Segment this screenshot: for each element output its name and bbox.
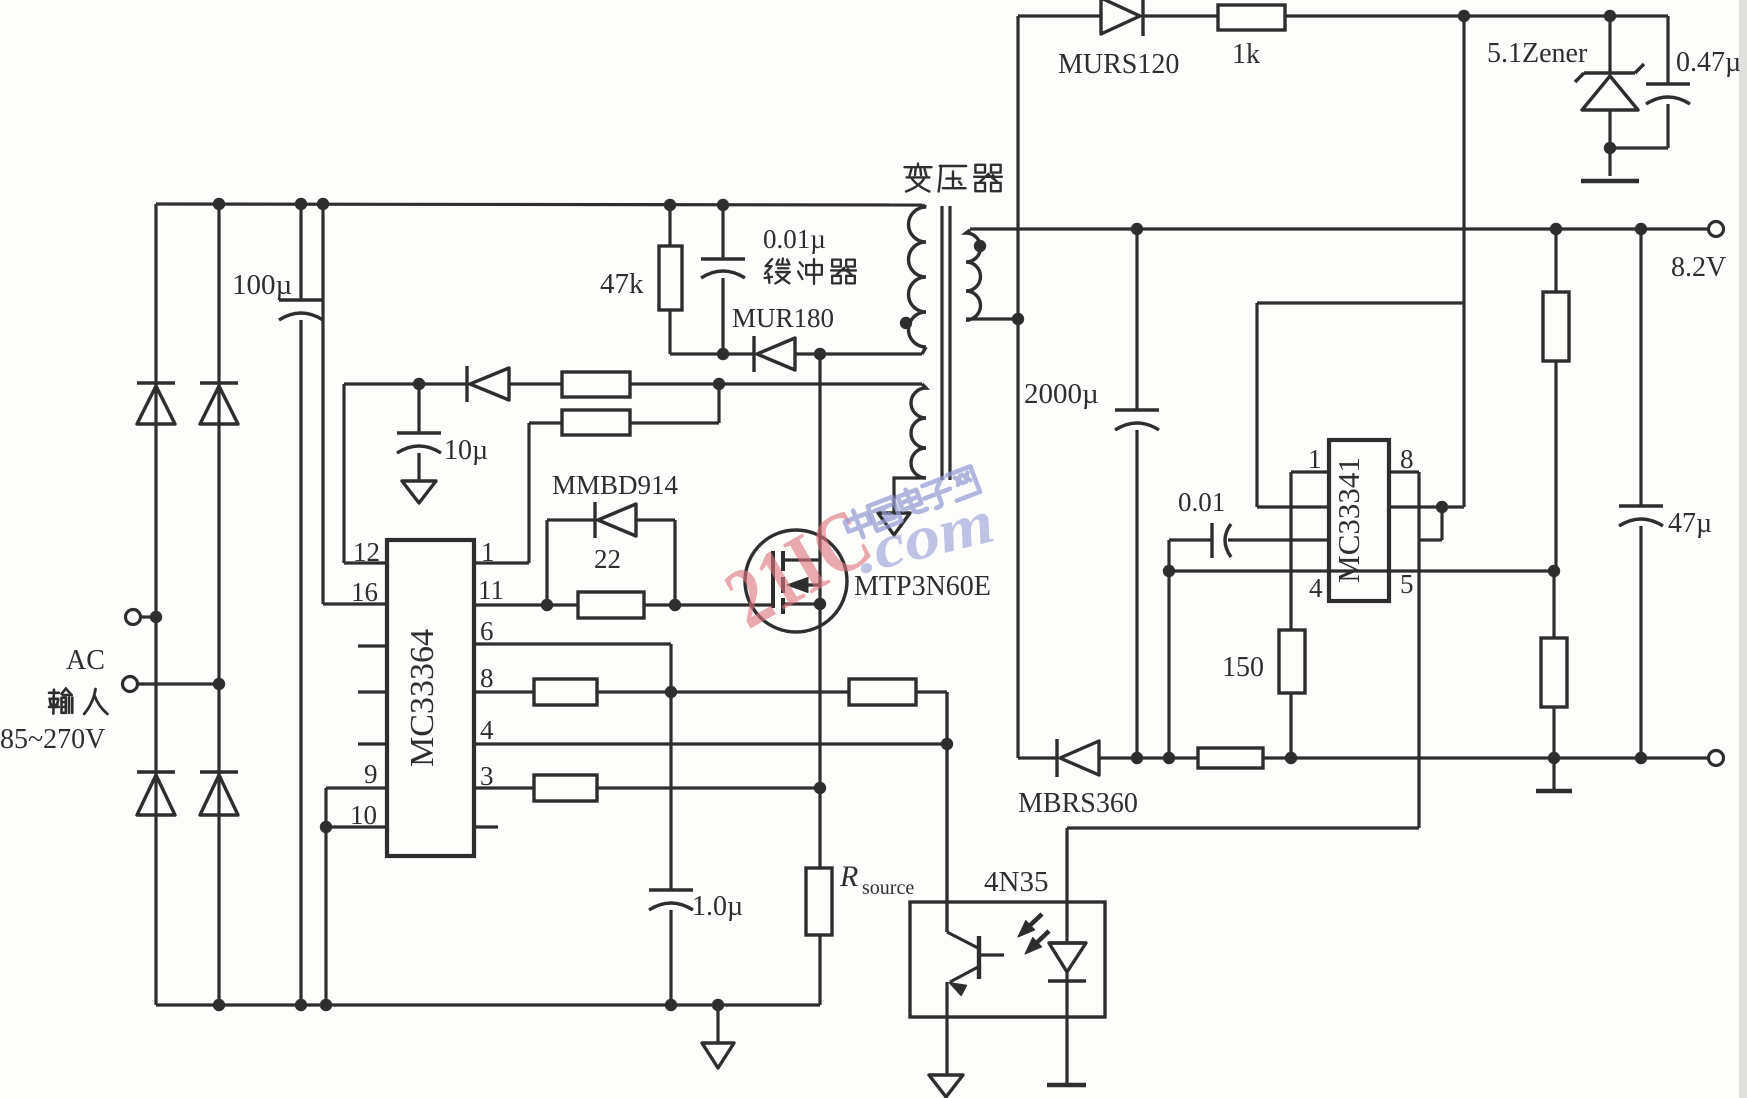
wire source column [818,604,821,868]
watermark [710,490,886,647]
wire secondary bottom lead [966,317,1018,320]
node junction 47µ/return [1635,752,1647,764]
node junction col2/top rail [213,198,225,210]
ground bar below divider [1552,758,1555,790]
node junction 100µ/bottom rail [295,999,307,1011]
svg-text:1: 1 [1308,444,1322,474]
wire pin8 row [597,690,849,693]
svg-text:47k: 47k [600,268,644,300]
pin 9 lead [326,786,387,789]
diode D5 (VCC rectifier) [465,366,468,402]
ground bar below 4N35 LED [1047,1083,1086,1087]
pin 1 stub U2 [1291,470,1329,473]
terminal AC input bottom [123,677,138,692]
diode bridge D4 (lower-right) [200,770,238,773]
resistor R pin3 [534,775,597,801]
ground below 10µ [402,481,436,503]
wire 100µ cap bottom lead [299,320,302,1005]
capacitor C 100µ [279,298,323,301]
resistor R divider-lower [1541,638,1567,707]
pin 16 lead [323,602,387,605]
diode MBRS360 [1055,739,1058,777]
resistor R row2 [562,410,630,435]
pin 8 stub U2 [1389,470,1419,473]
node junction AC-bottom on column [213,678,225,690]
stub nc pin left c [358,742,387,745]
opto transistor collector [945,692,948,932]
node junction 0.01/pin4 row [1163,565,1175,577]
wire pins 9/10 to ground rail [324,788,327,1005]
opto light arrow a [1021,914,1042,934]
pin 8 row U2 [1389,505,1464,508]
svg-text:1: 1 [481,537,495,567]
terminal AC input top [126,610,141,625]
stub nc pin right [474,825,498,828]
svg-text:8: 8 [480,663,494,693]
wire 47k top lead [668,205,671,246]
svg-text:AC: AC [66,645,105,676]
svg-text:9: 9 [364,759,378,789]
svg-text:150: 150 [1222,652,1264,683]
diode MURS120 [1101,0,1140,34]
svg-text:MMBD914: MMBD914 [552,470,679,500]
wire 100µ cap top lead [299,204,302,300]
pin 11 lead [474,603,547,606]
resistor 150 [1279,630,1305,693]
svg-text:R: R [839,860,858,893]
svg-text:2000µ: 2000µ [1024,378,1099,410]
wire row1 corner to pin 12 [342,384,345,563]
node junction zener/0.47µ [1604,142,1616,154]
opto transistor base bar [977,936,981,979]
opto transistor base stub [979,953,1004,956]
wire 10µ bottom lead [417,453,420,481]
wire 0.47µ top lead [1666,16,1669,84]
node junction 47k/top rail [664,199,676,211]
transformer secondary winding [966,230,981,320]
transformer auxiliary winding [911,384,926,478]
wire 8.2V output rail [970,227,1708,230]
wire output return rail [1018,756,1057,759]
label 变压器 [905,164,932,192]
node junction 0.01µ/top rail [717,199,729,211]
ground below aux winding [878,513,910,535]
node junction 150/output return [1285,752,1297,764]
wire pin11 row [547,603,578,606]
svg-text:22: 22 [594,544,621,574]
wire pin4-pin5 row [1169,569,1554,572]
pin 4 lead wire [474,742,947,745]
stub nc pin left b [358,690,387,693]
terminal 8.2V output [1709,222,1724,237]
node junction pin6/pin8 row [665,686,677,698]
wire snubber 0.01µ top lead [721,205,724,259]
node junction AC-top on column [150,611,162,623]
node junction row1/row2 tie [713,378,725,390]
wire 1.0µ bottom lead [669,910,672,1005]
ground below 4N35 transistor [929,1075,963,1097]
label 输入 [49,689,72,714]
wire snubber cap bottom lead [721,278,724,354]
svg-text:10µ: 10µ [444,435,488,466]
resistor 47k [659,246,682,310]
node junction pin5/divider [1548,565,1560,577]
node junction divider-bottom/return [1548,752,1560,764]
wire zener top lead [1608,16,1611,73]
wire pin3 row [597,786,820,789]
wire row2 corner to pin 1 [527,423,530,563]
node junction 22-right [669,599,681,611]
wire 4N35 anode feed [1067,826,1419,829]
transformer core [940,206,943,480]
transistor Q1 MTP3N60E [745,530,847,632]
wire snubber bottom row [670,352,754,355]
svg-text:0.01µ: 0.01µ [763,224,826,254]
svg-text:12: 12 [353,537,380,567]
wire row2 riser [717,384,720,423]
node junction secondary/long vertical [1012,313,1024,325]
wire aux winding to ground [894,478,926,513]
wire divider upper lead [1554,229,1557,292]
node junction 0.01-col/output return [1163,752,1175,764]
svg-text:MUR180: MUR180 [732,303,834,333]
svg-text:8: 8 [1400,444,1414,474]
diode zener 5.1V [1584,71,1635,74]
node junction ground stub [712,999,724,1011]
wire zener bottom lead [1608,110,1611,176]
ground main (primary side) [702,1043,734,1068]
svg-text:85~270V: 85~270V [0,724,105,755]
pin 8 lead [474,690,534,693]
wire 47k bottom lead [668,310,671,354]
node junction 47µ/8.2V rail [1635,223,1647,235]
wire pin8 jog [1440,507,1443,540]
wire 10µ top lead [417,384,420,433]
wire divider middle [1554,361,1557,571]
capacitor C 1.0µ [649,888,693,891]
wire bottom ground rail [156,1003,820,1006]
wire R_source bottom lead [818,935,821,1005]
svg-text:source: source [862,877,914,899]
resistor R pin8-a [534,679,597,705]
wire 47µ bottom lead [1639,526,1642,758]
svg-text:MBRS360: MBRS360 [1018,788,1138,819]
capacitor C 0.47µ [1646,82,1690,85]
pin 10 lead [326,825,387,828]
opto transistor emitter [950,967,978,982]
svg-text:4N35: 4N35 [984,866,1048,898]
transformer secondary phase dot [974,240,986,252]
wire feedback outer-left vertical [1255,303,1258,507]
diode MMBD914 [593,502,596,538]
terminal output return [1709,751,1724,766]
wire LED cathode lead [1065,972,1068,1084]
scan artifact right edge band [1739,0,1747,1098]
wire feedback outer top [1257,301,1464,304]
resistor 1k [1218,5,1285,30]
svg-text:8.2V: 8.2V [1671,252,1726,283]
capacitor C 47µ [1619,504,1663,507]
node junction 2000µ/rail [1131,223,1143,235]
resistor R row1 [562,372,630,397]
svg-text:1k: 1k [1232,39,1260,70]
node junction pins9-10/ground rail [320,999,332,1011]
optocoupler U3 4N35 box [910,902,1105,1017]
svg-text:5.1Zener: 5.1Zener [1487,38,1588,69]
wire VCC row2 [529,421,562,424]
svg-text:5: 5 [1400,569,1414,599]
svg-text:0.01: 0.01 [1178,487,1225,517]
wire drain to snubber row [818,354,821,560]
node junction pin8-row [1436,501,1448,513]
wire top feedback rail [1018,14,1101,17]
wire 0.01 left lead [1169,538,1212,541]
svg-text:1.0µ: 1.0µ [692,891,743,922]
node junction 2000µ/output return [1131,752,1143,764]
pin 6 lead [474,642,671,645]
svg-text:11: 11 [478,575,504,605]
label 缓冲器 [765,259,790,284]
node junction divider-top/top rail [1458,10,1470,22]
wire 47µ top lead [1639,229,1642,506]
diode bridge D2 (upper-right) [200,381,238,384]
pin 3 lead [474,786,534,789]
diode bridge D3 (lower-left) [137,770,175,773]
svg-text:MURS120: MURS120 [1058,49,1179,80]
IC U2 MC33341 body [1329,440,1389,601]
transformer primary winding [909,205,927,347]
wire right bridge column [217,204,220,1005]
resistor R_source [806,868,832,935]
svg-text:MC33341: MC33341 [1331,457,1366,583]
wire MMBD914 loop [545,520,548,605]
wire 150 bottom lead [1289,693,1292,758]
wire VCC row1 [344,382,467,385]
resistor 22 [578,592,644,618]
wire VCC column to pin 16 [321,204,324,604]
diode MUR180 [752,336,755,372]
node junction 10µ top [413,378,425,390]
svg-text:4: 4 [1309,573,1323,603]
capacitor C 0.01 (sense) [1210,523,1213,558]
capacitor C 10µ [397,431,441,434]
wire divider-top vertical [1462,16,1465,507]
wire long vertical to MBRS row [1016,16,1019,758]
node junction 1.0µ/ground rail [665,999,677,1011]
node junction pin3/source [814,782,826,794]
node junction pin16-column/top rail [317,198,329,210]
svg-text:6: 6 [480,616,494,646]
wire pin8 row to opto corner [916,690,947,693]
capacitor snubber 0.01µ [701,257,745,260]
svg-text:0.47µ: 0.47µ [1676,47,1741,78]
IC U1 MC33364 body [387,540,474,856]
transformer primary phase dot [900,317,912,329]
node junction zener-col/top [1604,10,1616,22]
svg-text:47µ: 47µ [1668,508,1712,539]
wire 2000µ top lead [1135,229,1138,410]
svg-text:4: 4 [480,715,494,745]
opto light arrow b [1028,931,1049,951]
wire ground stub [716,1005,719,1043]
wire 0.01 right lead [1228,538,1329,541]
wire divider lower lead [1552,707,1555,758]
capacitor C 2000µ [1115,408,1159,411]
node junction snubber-cap bottom [717,348,729,360]
wire pin6 riser to 1.0µ [669,644,672,890]
svg-text:MC33364: MC33364 [404,629,441,767]
diode bridge D1 (upper-left) [137,381,175,384]
ground bar below zener [1581,179,1639,183]
stub nc pin left a [358,644,387,647]
node junction 22-left [541,599,553,611]
wire 0.47µ bottom lead [1666,104,1669,148]
node junction pin10 [320,821,332,833]
wire 2000µ bottom lead [1135,430,1138,758]
resistor R pin8-b [849,679,916,705]
node junction drain/snubber row [814,348,826,360]
node junction col2/bottom rail [213,999,225,1011]
resistor R return [1198,748,1263,768]
node junction divider-top/8.2V rail [1550,223,1562,235]
node junction 100µ/top rail [295,198,307,210]
wire left bridge column [154,204,157,1005]
wire emitter to ground [945,982,948,1075]
wire top DC bus rail [156,204,922,205]
opto LED [1049,941,1086,944]
node junction pin4/opto column [941,738,953,750]
svg-text:100µ: 100µ [232,269,292,301]
resistor R divider-upper [1543,292,1569,361]
